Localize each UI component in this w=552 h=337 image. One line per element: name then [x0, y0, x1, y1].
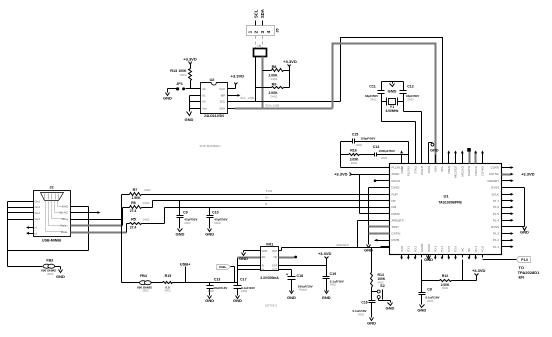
svg-text:0402: 0402 [381, 156, 388, 160]
capacitor C13 [209, 283, 211, 286]
svg-text:DP: DP [392, 199, 396, 203]
pin U2 A2 [194, 101, 201, 103]
pin U1 CDATO square [469, 151, 471, 164]
capacitor C15 [341, 141, 353, 143]
svg-text:DM: DM [392, 205, 397, 209]
pin U1 DP left [381, 200, 390, 202]
pin U2 WP no-connect arrow [235, 95, 239, 97]
svg-text:C12: C12 [407, 85, 414, 89]
ground C9 [178, 229, 183, 232]
svg-text:DVSS: DVSS [491, 185, 499, 189]
svg-text:0402: 0402 [370, 98, 377, 102]
capacitor C11 [381, 82, 383, 91]
tag P1.0 [517, 257, 531, 263]
pin U1 SCLK right [502, 194, 511, 196]
capacitor C9 [179, 201, 181, 216]
svg-text:R15: R15 [165, 274, 172, 278]
wire SDA riser over to U1 SDA [333, 44, 436, 164]
svg-text:P1.7: P1.7 [493, 199, 499, 203]
svg-text:GND: GND [367, 321, 376, 326]
svg-text:GND: GND [386, 306, 395, 311]
connector J5 header [247, 26, 275, 36]
svg-text:0402: 0402 [180, 73, 187, 77]
pin J2 Gnd [8, 207, 34, 209]
pin U1 MCLKO2 arrow [455, 152, 457, 164]
ground S2 [388, 303, 393, 306]
wire J2 shield bus [7, 202, 9, 267]
pin U2 SDA [228, 108, 235, 110]
pin U1 SCL top [442, 155, 444, 164]
svg-text:IN: IN [262, 267, 265, 271]
svg-text:XTALI: XTALI [413, 166, 417, 174]
wire J5 pin3 to U5 [262, 36, 264, 48]
pin U1 VREF top [401, 155, 403, 164]
ground C16 [370, 318, 374, 321]
wire crystal to XTALI [382, 121, 416, 123]
svg-text:C17: C17 [240, 278, 247, 282]
ground U2 [187, 112, 192, 116]
pin U1 right arrow 11 [511, 233, 512, 235]
svg-text:0402: 0402 [271, 94, 278, 98]
svg-text:D-: D- [265, 202, 268, 206]
svg-text:0402: 0402 [427, 299, 434, 303]
pin U1 SDA top [435, 155, 437, 164]
wire DVDD bottom to R12 rail [421, 260, 423, 281]
ic U2 24LC64 [201, 83, 228, 114]
svg-text:XTALO: XTALO [420, 165, 424, 175]
svg-text:0402: 0402 [143, 218, 150, 222]
svg-text:+3.3VD: +3.3VD [231, 74, 245, 79]
svg-text:GND: GND [62, 205, 68, 209]
ground C10 [208, 229, 212, 232]
wire pullup common [289, 67, 291, 88]
pin U1 MCLKI2 top [462, 155, 464, 164]
wire VR1 OUT2 [279, 269, 292, 271]
wire VR1 reset to U1 MRESET [279, 250, 282, 252]
svg-text:ARESET\: ARESET\ [336, 243, 349, 247]
pin U1 P3.0 bottom [401, 255, 403, 258]
pin U1 P1.6 right [502, 207, 511, 209]
pin U1 CDATI right [502, 167, 511, 169]
svg-text:GND: GND [163, 95, 172, 100]
J2 receptacle graphic [41, 193, 64, 201]
svg-text:SDA: SDA [219, 107, 225, 111]
pin U1 P1.3 right [502, 233, 511, 235]
svg-text:P1.6: P1.6 [493, 205, 499, 209]
ground U1 DVSS bottom [427, 256, 431, 260]
pin U1 P3.6 bottom [455, 255, 457, 258]
capacitor C10 [209, 208, 211, 216]
pin U1 P1.7 right [502, 200, 511, 202]
svg-text:GND: GND [322, 295, 331, 300]
svg-text:RST: RST [272, 249, 278, 253]
svg-text:A0: A0 [202, 87, 206, 91]
pin U1 XTALI top [415, 155, 417, 164]
connector J2 USB-MINIB [34, 191, 71, 237]
svg-text:0402: 0402 [184, 221, 191, 225]
resistor R13 [190, 65, 192, 69]
pin U1 bottom arrow 6 [434, 257, 437, 260]
svg-text:0402: 0402 [271, 77, 278, 81]
svg-text:Radial: Radial [299, 288, 307, 292]
pin U2 A0 [194, 88, 201, 90]
pin U1 PLLFILI top [408, 155, 410, 164]
pin U1 bottom arrow 1 [400, 257, 403, 260]
svg-text:P3.6: P3.6 [454, 245, 458, 251]
svg-text:P1.0: P1.0 [481, 245, 485, 251]
wire DVSS TEST EXTEN to ground [369, 187, 381, 189]
svg-text:0402: 0402 [143, 201, 150, 205]
pin U1 CSYNC right [502, 174, 511, 176]
svg-text:CSYNC: CSYNC [489, 172, 499, 176]
pin U1 MCLKO dot [374, 179, 377, 182]
wire SCL from U5 [255, 57, 257, 102]
pin U1 P3.5 bottom [448, 255, 450, 258]
svg-text:27.4: 27.4 [130, 226, 137, 230]
capacitor C19 [326, 266, 328, 277]
svg-text:CSYN2: CSYN2 [481, 166, 485, 176]
svg-text:NC: NC [274, 255, 278, 259]
svg-text:0402: 0402 [241, 289, 248, 293]
wire shield to FB3 [8, 266, 43, 268]
svg-text:GND: GND [205, 231, 214, 236]
resistor R16 [341, 154, 349, 156]
pin U1 bottom arrow 2 [407, 257, 410, 260]
ground U1 right [523, 227, 527, 231]
wire J2 GND down to bus [88, 207, 90, 251]
svg-text:Data+: Data+ [60, 224, 68, 228]
pin U1 P3.1 bottom [408, 255, 410, 258]
svg-text:CNTIN: CNTIN [392, 232, 401, 236]
svg-text:24LC64-I/SN: 24LC64-I/SN [204, 114, 224, 118]
svg-text:0402: 0402 [330, 283, 337, 287]
pin U1 P1.5 right [502, 213, 511, 215]
power +3.3VD pullups [288, 65, 291, 67]
pin U1 CSYN2 arrow [482, 152, 484, 164]
svg-text:4: 4 [266, 30, 271, 33]
svg-text:USB-MINIB: USB-MINIB [42, 239, 61, 243]
svg-text:R6: R6 [131, 201, 136, 205]
wire S2 to gnd [378, 299, 380, 301]
crystal Y1 [386, 98, 388, 106]
pin U1 MCLKI2 arrow [462, 152, 464, 164]
svg-text:PUR: PUR [392, 192, 398, 196]
svg-text:AVDD: AVDD [392, 172, 400, 176]
pin U1 RSTO arrow [375, 240, 381, 242]
wire SCL riser over to U1 SCL [341, 38, 443, 164]
svg-text:TAS1020BPFB: TAS1020BPFB [438, 201, 462, 205]
svg-text:+3.3VD: +3.3VD [334, 171, 348, 176]
svg-text:USB+: USB+ [180, 261, 191, 266]
svg-text:VREF: VREF [400, 166, 404, 174]
svg-text:100pF/50V: 100pF/50V [361, 136, 376, 140]
ground FB3 [59, 270, 63, 273]
svg-text:U2: U2 [210, 78, 215, 82]
svg-text:2: 2 [254, 30, 259, 33]
svg-text:1.50K: 1.50K [131, 196, 141, 200]
pin U1 RSTB left [381, 240, 390, 242]
pin U2 WP [228, 95, 235, 97]
pin U1 CRESET right [502, 180, 511, 182]
wire JP1 to gnd [168, 88, 177, 90]
ferrite bead FB4 [122, 282, 142, 284]
capacitor C17 [237, 283, 239, 286]
pin U1 bottom arrow 12 [474, 257, 477, 260]
svg-text:C19: C19 [330, 272, 337, 276]
pin U1 P1.1 right [502, 246, 511, 248]
svg-text:P1.0: P1.0 [521, 258, 528, 262]
wire crystal to XTALO [404, 111, 422, 113]
pin U1 AVDD left [381, 174, 390, 176]
pin U2 VCC [228, 88, 235, 90]
svg-text:Gnd: Gnd [35, 211, 41, 215]
svg-text:10uF/6.3V: 10uF/6.3V [213, 286, 227, 290]
svg-text:FB3: FB3 [46, 259, 53, 263]
svg-text:0402: 0402 [442, 286, 449, 290]
svg-text:C18: C18 [297, 274, 304, 278]
svg-text:C10: C10 [212, 210, 219, 214]
pin U1 bottom arrow 7 [441, 257, 444, 260]
svg-text:6.00MHz: 6.00MHz [386, 109, 399, 113]
pin U1 VREN top [448, 155, 450, 164]
svg-text:TEST: TEST [392, 225, 400, 229]
pin U1 right arrow 1 [511, 167, 512, 169]
svg-text:MCLKO2: MCLKO2 [454, 166, 458, 178]
pin U1 P1.1 bottom [475, 255, 477, 258]
pin U1 P1.0 bottom [482, 255, 484, 258]
pin U1 NC bottom [462, 255, 464, 258]
pin U1 CSCLK arrow [475, 152, 477, 164]
ground C13 [208, 296, 212, 299]
pin U1 PLLFILO left [381, 167, 390, 169]
ground C17 [236, 296, 240, 299]
ic VR1 regulator [261, 247, 279, 271]
pin U1 DVSS right [502, 187, 511, 189]
pin U1 DVSS left [381, 187, 390, 189]
svg-text:WP: WP [221, 94, 226, 98]
svg-text:R13: R13 [170, 69, 177, 73]
pin U1 DVDD left [381, 213, 390, 215]
wire PUR line [142, 194, 381, 196]
pin U1 PUR left [381, 194, 390, 196]
svg-text:GND: GND [175, 231, 184, 236]
resistor R9 [256, 87, 272, 89]
pin U1 CSCLK top [475, 155, 477, 164]
svg-text:C8: C8 [427, 287, 432, 291]
pin J2 Data- [71, 232, 127, 234]
svg-text:1206: 1206 [208, 289, 215, 293]
svg-text:P1.1: P1.1 [493, 245, 499, 249]
ground C8 [420, 305, 425, 308]
pin U1 TEST left [381, 226, 390, 228]
svg-text:0402: 0402 [407, 98, 414, 102]
pin U2 SCL [228, 101, 235, 103]
svg-text:C16: C16 [361, 300, 367, 304]
svg-text:GND: GND [205, 298, 214, 303]
pin U1 ARESET\ left [381, 220, 390, 222]
svg-text:P1.5: P1.5 [493, 212, 499, 216]
pin U1 right arrow 9 [511, 220, 512, 222]
svg-text:R8: R8 [272, 65, 277, 69]
pin J2 shield nc arrows [29, 227, 34, 229]
svg-text:R9: R9 [272, 82, 277, 86]
wire SDA from U5 [262, 57, 264, 109]
resistor R15 [151, 282, 163, 284]
svg-text:0402: 0402 [214, 221, 221, 225]
pin U1 VREF top arrow [400, 150, 403, 153]
svg-text:0402: 0402 [144, 188, 151, 192]
resistor R14 [371, 248, 373, 273]
ground crystal rail [392, 82, 394, 84]
resistor R5 [127, 223, 130, 225]
wire VBus vertical [121, 195, 123, 283]
pin U1 DVDD bottom [421, 255, 423, 258]
svg-text:CRESET: CRESET [487, 179, 499, 183]
pin U1 right arrow 13 [511, 246, 512, 248]
svg-text:SCLK: SCLK [491, 192, 499, 196]
svg-text:R5: R5 [131, 218, 136, 222]
svg-text:A2: A2 [202, 100, 206, 104]
svg-text:C11: C11 [369, 85, 375, 89]
svg-text:JP1: JP1 [176, 82, 183, 86]
wire crystal gnd rail [382, 81, 404, 83]
wire FB3 to gnd [55, 266, 61, 268]
svg-text:PLLFILI: PLLFILI [407, 166, 411, 176]
svg-text:NC: NC [467, 248, 471, 252]
pin J2 Gnd [8, 212, 34, 214]
wire J5 pin2 to U5 [255, 36, 257, 48]
wire DP line [142, 207, 153, 209]
svg-text:SOP-8(150MIL): SOP-8(150MIL) [199, 144, 220, 148]
svg-text:OUT: OUT [272, 263, 278, 267]
wire DM line [142, 223, 165, 225]
wire PLLFILO loop [340, 142, 342, 168]
pin U1 bottom arrow 9 [454, 257, 457, 260]
svg-text:R16: R16 [350, 148, 357, 152]
svg-text:A1: A1 [202, 94, 206, 98]
wire U2 address strap to ground [189, 96, 191, 112]
svg-text:3.3V/300mA: 3.3V/300mA [260, 276, 279, 280]
svg-text:GND: GND [239, 256, 248, 261]
pin U1 bottom arrow 8 [447, 257, 450, 260]
svg-text:C13: C13 [214, 278, 221, 282]
tag USB+ flag [217, 265, 231, 270]
svg-text:DVSS: DVSS [427, 244, 431, 252]
power +3.3VD R12 [476, 276, 478, 281]
pin U1 right arrow 12 [511, 240, 512, 242]
pin J2 Gnd [8, 219, 34, 221]
pin U1 DVSS bottom [428, 255, 430, 258]
resistor R12 [422, 280, 440, 282]
svg-text:PUR: PUR [266, 189, 273, 193]
pin J2 VBus [71, 219, 122, 221]
capacitor C18 tantalum [291, 270, 293, 277]
svg-text:J5: J5 [275, 28, 279, 32]
svg-text:EN: EN [262, 255, 266, 259]
svg-text:S2: S2 [380, 284, 384, 288]
wire U2 VCC [235, 88, 236, 90]
svg-text:GND: GND [430, 149, 439, 153]
pin J2 GND [71, 206, 89, 208]
svg-text:+3.3VD: +3.3VD [183, 56, 197, 61]
power +3.3VD U2 [235, 83, 238, 85]
svg-text:P3.2: P3.2 [413, 245, 417, 251]
pin U2 A1 [194, 95, 201, 97]
svg-text:+3.3VD: +3.3VD [521, 172, 535, 177]
svg-text:GND: GND [262, 249, 268, 253]
wire SCL bus [235, 101, 341, 103]
svg-text:P3.0: P3.0 [400, 245, 404, 251]
svg-text:MCLKI: MCLKI [392, 179, 401, 183]
svg-text:P3.4: P3.4 [440, 245, 444, 251]
capacitor C14 [360, 154, 375, 156]
pin U1 DVSS right [502, 226, 511, 228]
svg-text:CDATO: CDATO [467, 165, 471, 176]
pin J2 ID_NC arrow [71, 212, 99, 214]
svg-text:DVDD: DVDD [392, 212, 400, 216]
svg-text:GND: GND [417, 308, 426, 313]
svg-text:R12: R12 [442, 274, 449, 278]
pin U1 right arrow 3 [511, 180, 512, 182]
pin U1 CDATO top [469, 155, 471, 164]
ground JP1 [166, 93, 170, 96]
svg-text:EN: EN [519, 275, 525, 280]
pin U1 right arrow 6 [511, 200, 512, 202]
pin U1 row13 left [381, 246, 390, 248]
pin U1 right arrow 7 [511, 207, 512, 209]
pin U1 CNTIN left [381, 233, 390, 235]
svg-text:VBus: VBus [61, 217, 68, 221]
svg-text:P3.3: P3.3 [434, 245, 438, 251]
power +3.3VD R13 [189, 62, 192, 65]
svg-text:+3.3VD: +3.3VD [318, 251, 332, 256]
pin U1 P3.3 bottom [435, 255, 437, 258]
pin U1 XTALO top [421, 155, 423, 164]
svg-text:SDA: SDA [260, 9, 265, 18]
capacitor C8 [421, 281, 423, 293]
ground U1 left [367, 245, 371, 248]
svg-text:D+: D+ [265, 196, 269, 200]
ferrite bead FB3 [43, 264, 50, 268]
svg-text:GND: GND [287, 295, 296, 300]
svg-text:CSCLK: CSCLK [474, 166, 478, 176]
wire VR1 OUT to +3.3VD [279, 265, 327, 267]
svg-text:GND: GND [388, 89, 397, 94]
svg-text:DVSS: DVSS [491, 225, 499, 229]
pin U1 P1.4 right [502, 220, 511, 222]
pin U1 MCLKI left [381, 180, 390, 182]
wire AVDD to DVDD [359, 175, 361, 214]
pin U1 NC bottom [469, 255, 471, 258]
svg-text:VR1: VR1 [266, 243, 273, 247]
wire SDA bus [235, 108, 333, 110]
svg-text:0402: 0402 [356, 143, 363, 147]
resistor R6 [123, 207, 130, 209]
svg-text:SOT23-5: SOT23-5 [265, 303, 278, 307]
svg-text:U5: U5 [258, 44, 262, 48]
svg-text:P3.1: P3.1 [407, 245, 411, 251]
pin U1 right arrow 5 [511, 194, 512, 196]
svg-text:0402: 0402 [164, 289, 171, 293]
svg-text:FB4: FB4 [140, 274, 147, 278]
resistor R8 [263, 70, 272, 72]
capacitor C16 [369, 300, 376, 302]
svg-text:Data-: Data- [61, 230, 68, 234]
svg-text:+3.3VD: +3.3VD [472, 268, 486, 273]
svg-text:OUT: OUT [272, 267, 278, 271]
svg-text:C15: C15 [352, 133, 359, 137]
svg-text:DVSS: DVSS [392, 185, 400, 189]
